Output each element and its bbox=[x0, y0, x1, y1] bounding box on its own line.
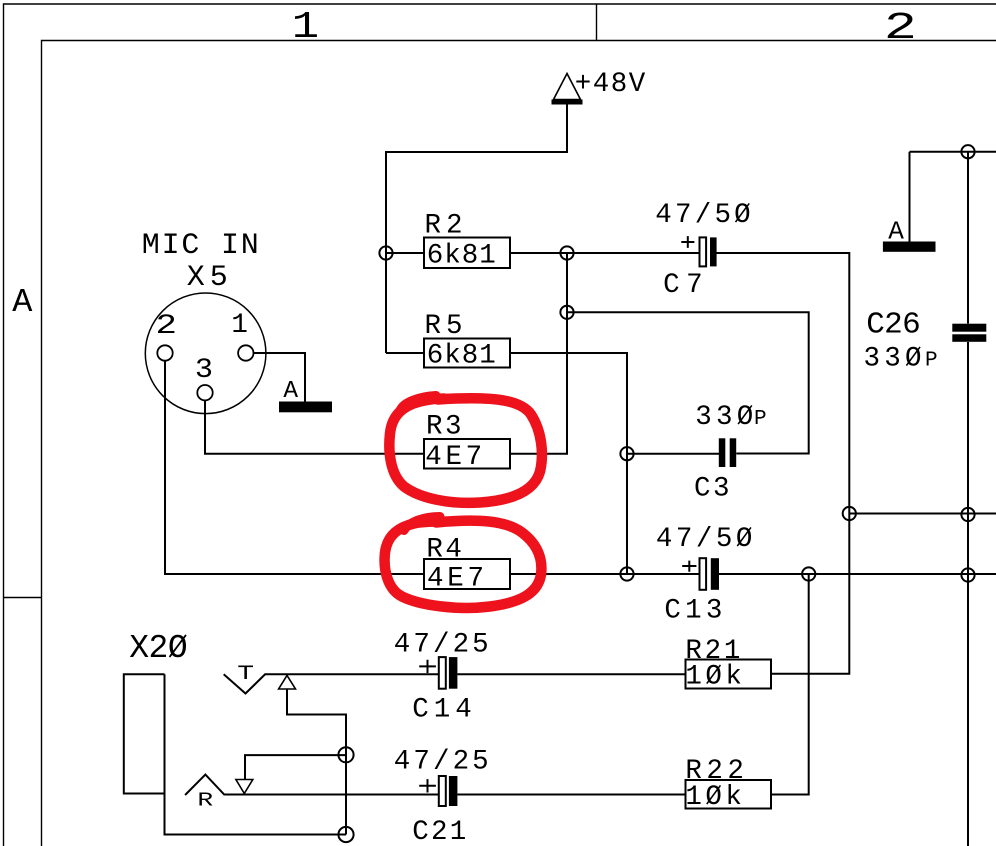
svg-text:A: A bbox=[12, 284, 33, 322]
svg-text:47/5Ø: 47/5Ø bbox=[655, 200, 751, 231]
svg-text:A: A bbox=[888, 216, 904, 246]
svg-text:6k81: 6k81 bbox=[427, 341, 496, 372]
svg-text:4E7: 4E7 bbox=[425, 442, 482, 473]
svg-text:C13: C13 bbox=[664, 596, 722, 627]
svg-text:4E7: 4E7 bbox=[427, 564, 484, 595]
svg-text:47/5Ø: 47/5Ø bbox=[656, 524, 753, 555]
svg-text:6k81: 6k81 bbox=[427, 241, 496, 272]
svg-text:33Ø: 33Ø bbox=[695, 402, 753, 433]
svg-text:A: A bbox=[283, 378, 298, 405]
svg-text:C14: C14 bbox=[412, 695, 472, 726]
svg-text:47/25: 47/25 bbox=[394, 747, 489, 778]
svg-text:47/25: 47/25 bbox=[394, 630, 489, 661]
svg-text:T: T bbox=[237, 664, 254, 686]
svg-text:2: 2 bbox=[156, 310, 177, 342]
svg-text:2: 2 bbox=[884, 7, 917, 50]
svg-text:MIC IN: MIC IN bbox=[142, 229, 259, 263]
svg-text:P: P bbox=[925, 349, 938, 372]
svg-text:1Øk: 1Øk bbox=[685, 662, 742, 693]
svg-text:C21: C21 bbox=[412, 817, 466, 846]
svg-text:X2Ø: X2Ø bbox=[129, 630, 188, 667]
svg-text:C26: C26 bbox=[866, 308, 921, 343]
svg-text:1: 1 bbox=[292, 5, 319, 48]
svg-text:1Øk: 1Øk bbox=[685, 782, 742, 813]
svg-text:+48V: +48V bbox=[575, 69, 646, 100]
svg-text:R: R bbox=[197, 790, 213, 812]
svg-text:1: 1 bbox=[231, 310, 248, 341]
svg-text:3: 3 bbox=[195, 354, 213, 385]
svg-text:33Ø: 33Ø bbox=[864, 343, 922, 374]
svg-text:P: P bbox=[754, 408, 767, 431]
